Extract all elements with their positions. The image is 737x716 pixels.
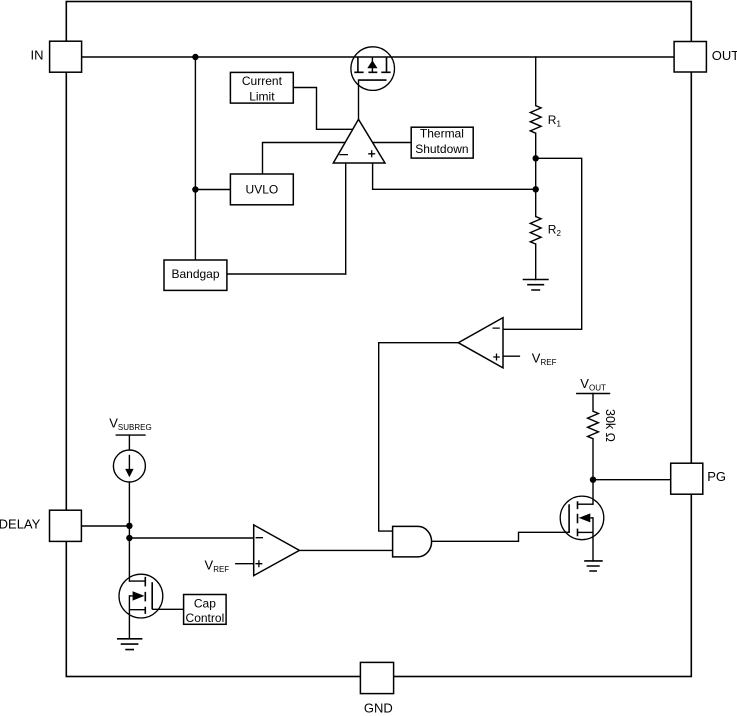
svg-text:R: R: [548, 113, 557, 127]
svg-text:PG: PG: [707, 469, 726, 484]
svg-text:Bandgap: Bandgap: [171, 267, 219, 281]
svg-text:Thermal: Thermal: [420, 126, 464, 140]
svg-text:2: 2: [557, 229, 562, 238]
svg-text:Cap: Cap: [194, 596, 216, 610]
svg-text:Shutdown: Shutdown: [415, 142, 468, 156]
svg-text:REF: REF: [213, 565, 229, 574]
svg-text:SUBREG: SUBREG: [118, 423, 152, 432]
svg-text:Control: Control: [186, 611, 225, 625]
svg-text:1: 1: [557, 119, 562, 128]
svg-text:OUT: OUT: [589, 383, 606, 392]
svg-text:Limit: Limit: [249, 89, 275, 103]
svg-text:V: V: [205, 558, 214, 573]
svg-text:V: V: [109, 415, 118, 430]
svg-text:DELAY: DELAY: [0, 516, 41, 531]
svg-text:R: R: [548, 223, 557, 237]
svg-text:V: V: [580, 376, 589, 391]
svg-text:IN: IN: [31, 48, 44, 63]
svg-text:V: V: [532, 350, 541, 365]
svg-text:REF: REF: [541, 358, 557, 367]
svg-text:30k Ω: 30k Ω: [603, 409, 617, 442]
svg-text:GND: GND: [364, 701, 393, 716]
svg-text:Current: Current: [242, 74, 283, 88]
svg-text:OUT: OUT: [712, 48, 737, 63]
svg-text:UVLO: UVLO: [246, 182, 279, 196]
